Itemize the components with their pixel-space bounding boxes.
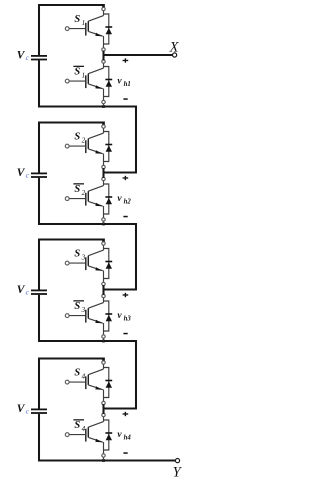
svg-text:h4: h4	[124, 435, 132, 442]
diode branch wires of S1 (upper switch, cell 1)	[104, 14, 109, 44]
label vh3	[117, 311, 131, 323]
antiparallel diode of S&#772;4 (lower switch, cell 4)	[105, 433, 112, 440]
wire: cell 4 left conductor (lower)	[38, 414, 40, 462]
wire: cell 3 negative rail down to cell 4 output node	[104, 340, 137, 408]
polarity + of vh1	[123, 58, 129, 62]
switch label S-bar 1	[73, 66, 85, 80]
polarity + of vh3	[123, 293, 129, 297]
polarity + of vh2	[123, 176, 129, 180]
gate terminal node of S1 (upper switch, cell 1)	[65, 27, 69, 31]
junction at cell 2 top rail / collector	[102, 122, 105, 126]
collector terminal node of S1 (upper switch, cell 1)	[102, 7, 105, 10]
diode branch wires of S4 (upper switch, cell 4)	[104, 368, 109, 398]
wire: collector stub of S&#772;2 (lower switch, cell 2)	[103, 179, 105, 186]
transistor S2 (upper switch, cell 2) IGBT body	[86, 133, 104, 167]
antiparallel diode of S&#772;1 (lower switch, cell 1)	[105, 80, 112, 87]
svg-text:3: 3	[81, 253, 86, 261]
collector terminal node of S&#772;3 (lower switch, cell 3)	[102, 294, 105, 297]
wire: cell 4 left conductor (upper)	[38, 358, 40, 409]
junction at cell 3 bottom rail / emitter	[102, 340, 105, 343]
diode branch wires of S2 (upper switch, cell 2)	[104, 132, 109, 162]
wire: collector stub of S1 (upper switch, cell 1)	[103, 9, 105, 16]
collector terminal node of S2 (upper switch, cell 2)	[102, 125, 105, 128]
label vh2	[117, 194, 131, 206]
transistor S3 (upper switch, cell 3) IGBT body	[86, 250, 104, 284]
wire: gate lead of S4 (upper switch, cell 4)	[69, 381, 86, 383]
transistor S1 (upper switch, cell 1) IGBT body	[86, 16, 104, 50]
terminal X	[173, 53, 177, 57]
capacitor C4 (Vc)	[31, 409, 47, 413]
wire: cell 1 output node to terminal X	[104, 54, 173, 56]
polarity - of vh4	[123, 452, 127, 454]
svg-text:S: S	[74, 249, 80, 260]
gate terminal node of S&#772;4 (lower switch, cell 4)	[65, 433, 69, 437]
diode branch wires of S&#772;1 (lower switch, cell 1)	[104, 67, 109, 97]
svg-text:1: 1	[82, 71, 86, 79]
wire: cell 1 midpoint link	[102, 51, 104, 61]
transistor S&#772;2 (lower switch, cell 2) IGBT body	[86, 186, 104, 220]
wire: cell 4 top rail	[38, 357, 103, 359]
antiparallel diode of S2 (upper switch, cell 2)	[105, 145, 112, 152]
svg-text:S: S	[74, 184, 80, 195]
wire: cell 2 bottom rail	[38, 223, 137, 225]
polarity - of vh1	[123, 98, 127, 100]
svg-text:h1: h1	[124, 81, 131, 88]
switch label S4	[74, 368, 85, 381]
wire: emitter-to-rail stub cell 2	[103, 220, 105, 225]
capacitor C2 (Vc)	[31, 173, 47, 177]
switch label S3	[74, 249, 85, 262]
antiparallel diode of S3 (upper switch, cell 3)	[105, 262, 112, 269]
label Vc of cell 1	[17, 49, 30, 62]
emitter terminal node of S&#772;1 (lower switch, cell 1)	[102, 100, 105, 103]
wire: emitter-to-rail stub cell 3	[103, 337, 105, 342]
wire: collector stub of S&#772;4 (lower switch, cell 4)	[103, 415, 105, 422]
svg-text:S: S	[74, 14, 80, 25]
junction at cell 4 bottom rail / emitter	[102, 459, 105, 462]
wire: cell 1 top rail	[38, 4, 103, 6]
label Vc of cell 3	[17, 284, 30, 297]
junction at cell 3 top rail / collector	[102, 239, 105, 243]
diode branch wires of S&#772;4 (lower switch, cell 4)	[104, 420, 109, 450]
wire: gate lead of S1 (upper switch, cell 1)	[69, 28, 86, 30]
svg-text:V: V	[17, 49, 26, 61]
junction at cell 1 top rail / collector	[102, 4, 105, 8]
svg-text:4: 4	[82, 372, 86, 380]
emitter terminal node of S&#772;4 (lower switch, cell 4)	[102, 454, 105, 457]
wire: gate lead of S&#772;3 (lower switch, cell 3)	[69, 315, 86, 317]
collector terminal node of S&#772;2 (lower switch, cell 2)	[102, 177, 105, 180]
wire: cell 3 bottom rail	[38, 340, 137, 342]
wire: cell 3 left conductor (lower)	[38, 295, 40, 342]
wire: collector stub of S&#772;3 (lower switch, cell 3)	[103, 296, 105, 303]
svg-text:2: 2	[82, 136, 86, 144]
emitter terminal node of S2 (upper switch, cell 2)	[102, 165, 105, 168]
transistor S4 (upper switch, cell 4) IGBT body	[86, 369, 104, 403]
gate terminal node of S3 (upper switch, cell 3)	[65, 261, 69, 265]
gate terminal node of S2 (upper switch, cell 2)	[65, 144, 69, 148]
antiparallel diode of S1 (upper switch, cell 1)	[105, 27, 112, 34]
switch label S2	[74, 132, 85, 145]
label Vc of cell 2	[17, 167, 30, 180]
polarity - of vh3	[123, 333, 127, 335]
transistor S&#772;3 (lower switch, cell 3) IGBT body	[86, 303, 104, 337]
emitter terminal node of S1 (upper switch, cell 1)	[102, 48, 105, 51]
switch label S-bar 4	[73, 419, 85, 433]
junction at cell 2 bottom rail / emitter	[102, 223, 105, 226]
wire: collector stub of S3 (upper switch, cell 3)	[103, 244, 105, 251]
svg-text:S: S	[74, 420, 80, 431]
transistor S&#772;4 (lower switch, cell 4) IGBT body	[86, 422, 104, 456]
wire: cell 2 top rail	[38, 121, 103, 123]
wire: gate lead of S3 (upper switch, cell 3)	[69, 262, 86, 264]
wire: cell 3 midpoint link	[102, 285, 104, 295]
wire: cell 2 left conductor (upper)	[38, 122, 40, 173]
wire: collector stub of S2 (upper switch, cell 2)	[103, 127, 105, 134]
gate terminal node of S4 (upper switch, cell 4)	[65, 380, 69, 384]
svg-text:2: 2	[82, 189, 86, 197]
collector terminal node of S4 (upper switch, cell 4)	[102, 361, 105, 364]
wire: cell 2 left conductor (lower)	[38, 178, 40, 225]
label vh4	[117, 430, 131, 442]
wire: emitter-to-rail stub cell 1	[103, 102, 105, 107]
svg-text:S: S	[74, 132, 80, 143]
wire: cell 3 top rail	[38, 238, 103, 240]
switch label S-bar 2	[73, 183, 85, 197]
collector terminal node of S3 (upper switch, cell 3)	[102, 242, 105, 245]
label Vc of cell 4	[17, 403, 30, 416]
wire: cell 4 midpoint link	[102, 404, 104, 414]
switch label S1	[74, 14, 85, 27]
wire: cell 2 midpoint link	[102, 168, 104, 178]
collector terminal node of S&#772;1 (lower switch, cell 1)	[102, 60, 105, 63]
svg-text:S: S	[74, 67, 80, 78]
svg-text:3: 3	[81, 306, 86, 314]
svg-text:4: 4	[82, 425, 86, 433]
svg-text:V: V	[17, 167, 26, 179]
svg-text:V: V	[17, 284, 26, 296]
svg-text:h2: h2	[124, 199, 132, 206]
wire: cell 1 bottom rail	[38, 105, 137, 107]
wire: emitter-to-rail stub cell 4	[103, 456, 105, 461]
svg-text:1: 1	[82, 19, 86, 27]
wire: gate lead of S&#772;2 (lower switch, cell 2)	[69, 198, 86, 200]
svg-text:X: X	[169, 40, 180, 56]
label vh1	[117, 77, 130, 89]
antiparallel diode of S&#772;2 (lower switch, cell 2)	[105, 197, 112, 204]
wire: collector stub of S4 (upper switch, cell 4)	[103, 363, 105, 370]
diode branch wires of S&#772;3 (lower switch, cell 3)	[104, 301, 109, 331]
wire: cell 3 left conductor (upper)	[38, 239, 40, 290]
wire: gate lead of S&#772;1 (lower switch, cell 1)	[69, 80, 86, 82]
capacitor C3 (Vc)	[31, 290, 47, 294]
wire: gate lead of S2 (upper switch, cell 2)	[69, 145, 86, 147]
wire: cell 2 negative rail down to cell 3 output node	[104, 223, 137, 289]
svg-text:V: V	[17, 403, 26, 415]
capacitor C1 (Vc)	[31, 56, 47, 60]
transistor S&#772;1 (lower switch, cell 1) IGBT body	[86, 68, 104, 102]
gate terminal node of S&#772;2 (lower switch, cell 2)	[65, 197, 69, 201]
emitter terminal node of S&#772;2 (lower switch, cell 2)	[102, 218, 105, 221]
collector terminal node of S&#772;4 (lower switch, cell 4)	[102, 413, 105, 416]
terminal Y	[175, 459, 179, 463]
gate terminal node of S&#772;3 (lower switch, cell 3)	[65, 314, 69, 318]
emitter terminal node of S&#772;3 (lower switch, cell 3)	[102, 335, 105, 338]
svg-text:h3: h3	[124, 316, 132, 323]
emitter terminal node of S3 (upper switch, cell 3)	[102, 282, 105, 285]
wire: gate lead of S&#772;4 (lower switch, cell 4)	[69, 434, 86, 436]
polarity - of vh2	[123, 216, 127, 218]
emitter terminal node of S4 (upper switch, cell 4)	[102, 401, 105, 404]
switch label S-bar 3	[73, 300, 85, 314]
diode branch wires of S3 (upper switch, cell 3)	[104, 249, 109, 279]
antiparallel diode of S&#772;3 (lower switch, cell 3)	[105, 314, 112, 321]
wire: cell 1 negative rail down to cell 2 output node	[104, 106, 137, 173]
wire: cell 1 left conductor (lower)	[38, 60, 40, 107]
wire: cell 1 left conductor (upper)	[38, 4, 40, 55]
wire: collector stub of S&#772;1 (lower switch, cell 1)	[103, 62, 105, 69]
junction at cell 4 top rail / collector	[102, 358, 105, 362]
diode branch wires of S&#772;2 (lower switch, cell 2)	[104, 184, 109, 214]
gate terminal node of S&#772;1 (lower switch, cell 1)	[65, 79, 69, 83]
polarity + of vh4	[123, 412, 129, 416]
wire: cell 4 bottom rail	[38, 459, 175, 461]
svg-text:S: S	[74, 368, 80, 379]
svg-text:S: S	[74, 301, 80, 312]
antiparallel diode of S4 (upper switch, cell 4)	[105, 381, 112, 388]
junction at cell 1 bottom rail / emitter	[102, 105, 105, 108]
